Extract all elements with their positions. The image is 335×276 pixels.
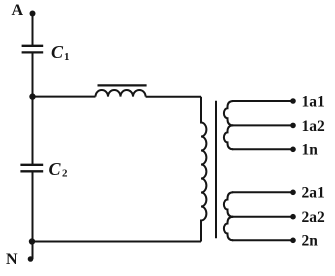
- svg-text:1a1: 1a1: [302, 93, 325, 110]
- svg-text:1: 1: [64, 51, 70, 63]
- svg-text:2n: 2n: [302, 233, 319, 250]
- svg-text:A: A: [12, 2, 24, 19]
- svg-text:C: C: [51, 42, 64, 62]
- svg-text:2: 2: [62, 168, 68, 180]
- svg-text:N: N: [6, 251, 18, 268]
- svg-text:2a1: 2a1: [302, 185, 325, 202]
- svg-text:1a2: 1a2: [302, 118, 326, 135]
- svg-text:C: C: [49, 159, 62, 179]
- svg-text:2a2: 2a2: [302, 209, 326, 226]
- svg-text:1n: 1n: [302, 142, 319, 159]
